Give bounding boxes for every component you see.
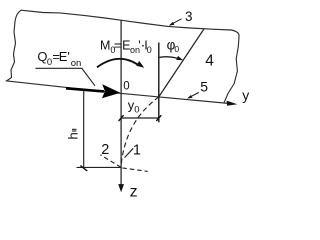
pile axis / z-axis vertical line — [120, 21, 122, 185]
svg-text:1: 1 — [133, 142, 141, 158]
dashed ray toward 2 — [100, 155, 121, 167]
underline and leader of Q0 label — [35, 68, 95, 86]
dashed ray lower right — [122, 168, 147, 172]
svg-text:2: 2 — [101, 142, 109, 158]
svg-text:0: 0 — [47, 57, 52, 68]
svg-text:on: on — [71, 58, 82, 69]
deflected pile axis dashed curve (1) — [121, 97, 159, 167]
rotated pile line (4) — [159, 29, 204, 97]
svg-text:E': E' — [59, 49, 70, 64]
h dimension bottom line — [77, 166, 122, 168]
moment M0 arc arrow — [97, 59, 137, 67]
svg-text:y: y — [242, 87, 249, 103]
small = above rotated h — [72, 128, 76, 130]
h dimension vertical line — [83, 91, 85, 168]
force Q0 thick arrow — [66, 88, 104, 91]
leader for 5 — [192, 92, 199, 96]
svg-text:4: 4 — [205, 52, 214, 69]
ground line / y-axis — [6, 81, 230, 104]
displaced pile top vertical line — [158, 43, 160, 123]
leader for 1 — [125, 148, 134, 157]
svg-text:=: = — [114, 39, 121, 53]
y-axis arrowhead — [227, 101, 238, 106]
svg-text:3: 3 — [185, 9, 193, 24]
svg-text:0: 0 — [147, 45, 152, 55]
svg-text:0: 0 — [174, 44, 179, 54]
rotation angle arc phi0 — [160, 57, 178, 58]
svg-text:h: h — [65, 132, 80, 139]
soil block outline (left wavy edge, top edge, right wavy edge) — [7, 10, 239, 103]
leader for 3 — [171, 19, 182, 25]
z-axis arrowhead — [118, 184, 124, 192]
h dimension tick — [80, 166, 87, 171]
svg-text:z: z — [130, 184, 138, 201]
y0 dimension line — [121, 117, 159, 119]
svg-text:5: 5 — [200, 79, 208, 95]
y0 dimension ticks — [119, 115, 124, 121]
svg-text:0: 0 — [134, 105, 139, 116]
svg-text:M: M — [100, 39, 110, 53]
svg-text:0: 0 — [123, 80, 129, 92]
